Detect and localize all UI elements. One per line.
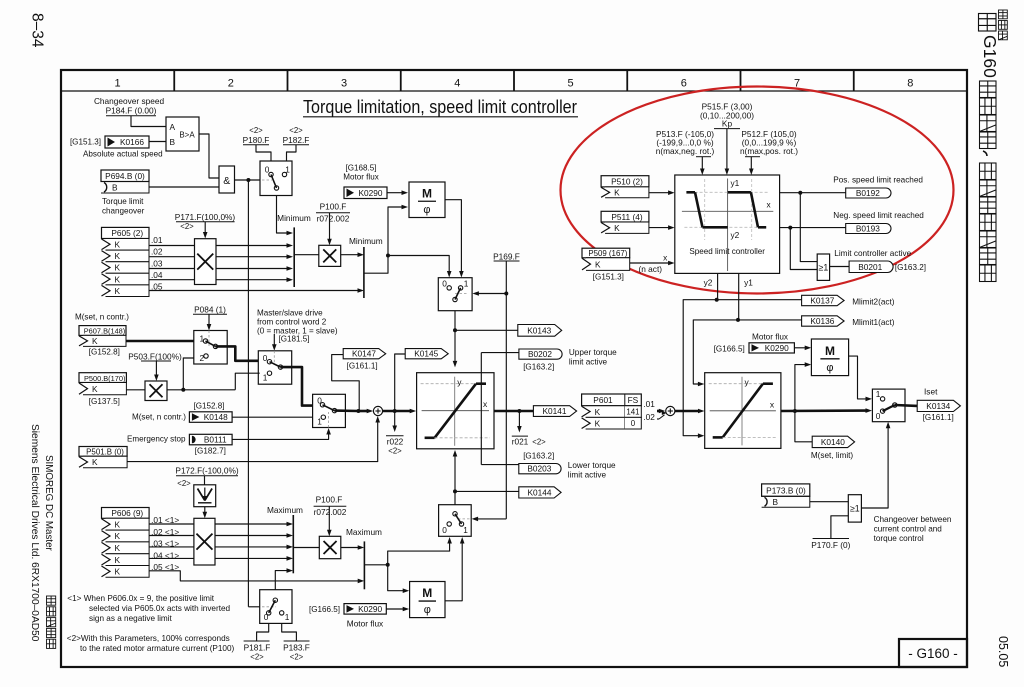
svg-text:[G161.1]: [G161.1] (347, 361, 378, 370)
multiplier P606 x P172 (194, 518, 215, 565)
svg-text:<2>: <2> (249, 126, 263, 135)
switch minimum/maximum select lower (439, 505, 472, 537)
connector K0134 Iset (917, 386, 960, 422)
svg-text:[G182.7]: [G182.7] (195, 446, 226, 455)
svg-text:K0134: K0134 (926, 401, 950, 411)
connector K0140 (811, 436, 855, 460)
wire y2 output to B0193 (780, 226, 846, 230)
svg-text:P181.F: P181.F (244, 642, 271, 652)
svg-text:[G151.3]: [G151.3] (70, 138, 101, 147)
wire multiplier to maximum rail 2 (341, 545, 364, 550)
svg-text:K0140: K0140 (821, 437, 845, 447)
wire maximum rail to multiplier (293, 547, 319, 549)
label Changeover between current and torque control (874, 515, 952, 543)
svg-text:A: A (170, 122, 176, 132)
svg-text:[G161.1]: [G161.1] (923, 413, 954, 422)
wire upper switch output down to limiter1 (453, 311, 518, 368)
switch Iset select (872, 389, 905, 422)
svg-text:M(set, n contr.): M(set, n contr.) (132, 412, 186, 421)
parameter table P605 (102, 227, 150, 238)
svg-text:Upper torque: Upper torque (569, 348, 617, 357)
svg-text:r021: r021 (512, 437, 529, 447)
wire P184 to comparator A (131, 116, 166, 127)
svg-text:P694.B (0): P694.B (0) (105, 171, 145, 181)
svg-text:K: K (92, 336, 98, 346)
parameter table P511 (601, 211, 649, 222)
label P169.F control (493, 251, 520, 261)
svg-text:[G152.8]: [G152.8] (193, 402, 224, 411)
wire adder2 to limiter2 (bold) (675, 409, 705, 414)
svg-text:(n act): (n act) (639, 264, 663, 274)
svg-text:[G163.2]: [G163.2] (895, 263, 926, 272)
svg-text:x: x (770, 399, 775, 409)
svg-text:r072.002: r072.002 (317, 214, 350, 224)
svg-text:K: K (115, 274, 121, 284)
wire inverter to multiplier P606 (203, 507, 208, 519)
svg-text:141: 141 (626, 408, 639, 417)
parameter table P607.B(148) (79, 326, 126, 336)
wire P170 to OR gate (831, 516, 848, 539)
parameter table P606 (102, 508, 150, 519)
svg-text:8: 8 (907, 78, 913, 90)
svg-text:P173.B (0): P173.B (0) (766, 486, 806, 496)
wire P180 into switch (256, 145, 271, 161)
svg-text:<2>: <2> (290, 652, 304, 661)
label P171.F multiplier gain (175, 212, 236, 231)
svg-text:B0111: B0111 (204, 435, 227, 445)
border frame (61, 70, 967, 667)
wire P511 into controller (649, 225, 675, 230)
wire P173 to OR gate (810, 501, 849, 503)
wire y1 output to B0192 (780, 191, 846, 195)
wire y1 into limiter2 top (693, 273, 801, 386)
page number 8-34 (29, 13, 46, 48)
connector K0290 bottom (344, 604, 386, 615)
wire P172 into inverter (204, 476, 206, 485)
label K0148 M(set,n contr.) (132, 402, 225, 422)
minimum rail 1 (277, 213, 311, 287)
wire M-phi bottom output to switch (445, 537, 465, 601)
connector B0201 (830, 249, 926, 273)
svg-text:K: K (115, 519, 121, 529)
svg-text:K: K (595, 418, 601, 428)
wire multiplier to minimum rail 2 (341, 252, 364, 257)
svg-text:&: & (223, 175, 230, 187)
svg-text:P184.F (0.00): P184.F (0.00) (106, 106, 157, 116)
wire maximum2 output to M-phi and switch (364, 537, 452, 593)
svg-text:Iset: Iset (924, 386, 938, 396)
multiplier P605 x P171 (195, 239, 217, 285)
minimum rail 2 (349, 236, 383, 298)
connector K0143 (518, 325, 562, 337)
svg-text:Torque limitation, speed limit: Torque limitation, speed limit controlle… (303, 96, 577, 117)
svg-text:[G163.2]: [G163.2] (523, 451, 554, 460)
svg-text:B0201: B0201 (858, 262, 882, 272)
wires speed limit flags to OR gate (790, 193, 817, 270)
connector B0111 (189, 434, 232, 445)
svg-text:y1: y1 (744, 277, 753, 287)
svg-text:limit active: limit active (568, 471, 607, 480)
label Master/slave drive note (257, 309, 338, 344)
wire B0111 control to emergency switch (232, 428, 331, 439)
G160 label box (899, 639, 967, 667)
svg-text:B: B (112, 183, 118, 193)
svg-text:torque control: torque control (874, 534, 924, 543)
wires P606 rows to multiplier and maximum rail (149, 522, 364, 584)
svg-text:<2>: <2> (250, 652, 264, 661)
svg-text:B0193: B0193 (856, 224, 880, 234)
wire P510 into controller (649, 190, 675, 195)
connector K0290 right (749, 343, 794, 353)
svg-text:K0136: K0136 (810, 316, 834, 326)
wire Iset switch output (bold) (895, 404, 917, 407)
label P515.F Kp (700, 102, 754, 129)
wire M-phi output to switch 1-input (445, 200, 464, 278)
connector K0145 tap (395, 349, 449, 411)
svg-text:K0166: K0166 (120, 137, 144, 147)
divider M/phi right (811, 339, 848, 376)
svg-text:y2: y2 (704, 277, 713, 287)
svg-text:M: M (825, 344, 835, 358)
svg-text:[G163.2]: [G163.2] (523, 362, 554, 371)
wire multiplier output to switches (167, 358, 260, 392)
svg-text:K0147: K0147 (352, 349, 376, 359)
svg-text:1: 1 (285, 612, 290, 622)
svg-text:B: B (773, 497, 779, 507)
svg-text:K: K (115, 251, 121, 261)
svg-text:changeover: changeover (102, 207, 145, 216)
connector K0166 (70, 136, 163, 159)
adder 1 (373, 406, 382, 415)
svg-text:K: K (595, 259, 601, 269)
wire M-phi right to Iset switch (849, 356, 872, 401)
connector P173.B (0) (762, 484, 810, 507)
svg-text:≥1: ≥1 (850, 504, 860, 514)
svg-text:Kp: Kp (722, 119, 733, 129)
svg-text:0: 0 (876, 411, 881, 421)
svg-text:≥1: ≥1 (819, 262, 829, 272)
svg-text:K: K (115, 543, 121, 553)
svg-text:P501.B (0): P501.B (0) (86, 448, 124, 457)
multiplier maximum x flux (319, 536, 341, 558)
wire comparator to AND gate (199, 134, 219, 178)
wire K0290 right to M-phi (794, 346, 811, 351)
svg-text:.02: .02 (151, 247, 163, 257)
svg-text:φ: φ (423, 204, 430, 216)
svg-text:Motor flux: Motor flux (752, 332, 788, 341)
svg-text:<2>: <2> (180, 222, 194, 231)
wire minimum2 output to M-phi and switch (364, 205, 452, 278)
svg-text:.02: .02 (643, 412, 655, 422)
divider M/phi bottom (410, 582, 445, 618)
wire P181/P183 switch output to maximum rail (275, 568, 293, 589)
svg-text:G160: G160 (980, 35, 1000, 78)
switch P084 master/slave (194, 331, 227, 365)
wire OR gate to Iset switch control (861, 422, 890, 508)
label P183.F source (282, 623, 310, 661)
label P180.F (243, 126, 270, 145)
maximum rail 1 (267, 505, 303, 573)
svg-text:1: 1 (463, 525, 468, 535)
svg-text:M(set, n contr.): M(set, n contr.) (75, 313, 129, 322)
connector K0290 upper (344, 187, 387, 199)
red highlight ellipse (561, 87, 954, 294)
label P100.F / r072.002 lower (314, 495, 347, 517)
wire P182 into switch (287, 145, 297, 161)
wire emergency switch output to adder (bold) (335, 409, 374, 414)
svg-text:current control and: current control and (874, 525, 943, 534)
wire P084 switch output (bold) (216, 346, 260, 360)
svg-text:selected via P605.0x acts with: selected via P605.0x acts with inverted (89, 604, 231, 613)
switch P180/P182 select (260, 161, 292, 196)
svg-text:K0290: K0290 (358, 604, 382, 614)
svg-text:P606 (9): P606 (9) (111, 508, 143, 518)
svg-text:K: K (614, 188, 620, 198)
svg-text:<2>: <2> (289, 126, 303, 135)
svg-text:M: M (422, 586, 432, 600)
limiter 2 current limit (705, 373, 781, 449)
wire P694 to AND gate (149, 186, 219, 188)
connector K0147 tap (332, 349, 386, 411)
svg-text:.01: .01 (151, 235, 163, 245)
svg-text:P503.F(100%): P503.F(100%) (128, 351, 182, 361)
svg-text:K: K (92, 384, 98, 394)
svg-text:Absolute actual speed: Absolute actual speed (83, 150, 163, 159)
svg-text:Master/slave drive: Master/slave drive (257, 309, 323, 318)
wire P501 into adder (127, 416, 380, 462)
date 05.05 (996, 636, 1010, 667)
svg-text:K0143: K0143 (527, 325, 551, 335)
display r021 (512, 411, 546, 447)
svg-text:B>A: B>A (179, 131, 195, 140)
svg-text:.04: .04 (151, 270, 163, 280)
svg-text:5: 5 (568, 78, 574, 90)
limiter 1 torque limit (417, 373, 494, 449)
wire P171 into multiplier (203, 222, 208, 239)
svg-text:1: 1 (115, 78, 121, 90)
svg-text:4: 4 (454, 78, 460, 90)
wire K0148 to emergency switch (232, 416, 313, 418)
OR gate changeover (848, 495, 861, 522)
svg-text:y: y (457, 377, 462, 387)
svg-text:0: 0 (442, 525, 447, 535)
label Torque limit changeover (102, 197, 145, 216)
svg-text:Minimum: Minimum (277, 213, 311, 223)
svg-text:1: 1 (876, 389, 881, 399)
svg-text:φ: φ (826, 362, 833, 374)
wire K0290 to M-phi bottom (386, 607, 409, 612)
svg-text:Speed limit controller: Speed limit controller (689, 247, 765, 256)
svg-text:to the rated motor armature cu: to the rated motor armature current (P10… (80, 644, 235, 653)
svg-text:P510 (2): P510 (2) (611, 177, 643, 187)
svg-text:φ: φ (424, 604, 431, 616)
parameter table P501.B (0) (79, 447, 127, 457)
svg-text:[G152.8]: [G152.8] (89, 348, 120, 357)
left margin imprint line 1 (29, 424, 40, 642)
connector K0136 (802, 316, 895, 327)
svg-text:B0202: B0202 (528, 349, 552, 359)
svg-text:[G168.5]: [G168.5] (345, 164, 376, 173)
svg-text:P607.B(148): P607.B(148) (84, 327, 126, 336)
parameter table P510 (601, 176, 649, 187)
wire minimum rail to multiplier (294, 254, 319, 256)
label P172.F(-100,0%) (175, 466, 238, 489)
svg-text:P084 (1): P084 (1) (194, 305, 226, 315)
svg-text:K0290: K0290 (359, 188, 383, 198)
wire lower switch output up to limiter1 (453, 450, 519, 505)
svg-text:Maximum: Maximum (267, 505, 303, 515)
maximum rail 2 (346, 527, 382, 589)
svg-text:SIMOREG DC Master: SIMOREG DC Master (43, 455, 54, 552)
svg-text:0: 0 (442, 279, 447, 289)
connector B0203 lower torque limit (519, 451, 616, 479)
svg-text:P100.F: P100.F (316, 495, 343, 505)
svg-text:sign as a negative limit: sign as a negative limit (89, 614, 173, 623)
multiplier minimum x flux (319, 245, 341, 266)
svg-text:Pos. speed limit reached: Pos. speed limit reached (833, 175, 923, 184)
connector B0202 upper torque limit (519, 348, 617, 371)
svg-text:P180.F: P180.F (243, 135, 270, 145)
OR gate limit controller active (817, 254, 829, 280)
label P512.F (740, 129, 798, 157)
parameter table P500.B(170) (79, 373, 126, 383)
display r022 (386, 411, 404, 456)
svg-text:K: K (115, 531, 121, 541)
svg-text:Maximum: Maximum (346, 527, 382, 537)
svg-text:P183.F: P183.F (283, 642, 310, 652)
label G168.5 Motor flux (343, 164, 379, 182)
inverter block minus one (194, 485, 216, 507)
wires parameters into controller (700, 129, 754, 175)
svg-text:[G137.5]: [G137.5] (89, 397, 120, 406)
speed limit controller block (675, 175, 780, 273)
svg-text:M(set, limit): M(set, limit) (811, 451, 854, 460)
wire y2 into limiter2 bottom (683, 273, 801, 438)
connector K0141 (533, 406, 576, 417)
svg-text:P500.B(170): P500.B(170) (84, 374, 126, 383)
svg-text:P169.F: P169.F (493, 251, 520, 261)
switch emergency stop (313, 394, 346, 427)
label P170.F (0) (811, 539, 850, 551)
svg-text:Changeover speed: Changeover speed (94, 96, 165, 106)
svg-text:r022: r022 (387, 436, 404, 446)
svg-text:K0141: K0141 (543, 406, 567, 416)
label P182.F (283, 126, 310, 145)
svg-text:P601: P601 (593, 395, 613, 405)
wire limiter1 output to K0141 (bold) (494, 409, 533, 413)
svg-text:FS: FS (628, 395, 639, 405)
svg-text:<2>: <2> (532, 438, 546, 447)
svg-text:from control word 2: from control word 2 (257, 318, 327, 327)
svg-text:Motor flux: Motor flux (343, 173, 379, 182)
left margin imprint line 2 (43, 455, 54, 552)
svg-text:<2>With this Parameters, 100%: <2>With this Parameters, 100% correspond… (67, 634, 230, 643)
svg-text:<2>: <2> (388, 447, 402, 456)
svg-text:y1: y1 (731, 178, 740, 188)
wires P605 rows to multiplier and minimum rail (149, 243, 364, 293)
svg-text:Siemens Electrical Drives Ltd.: Siemens Electrical Drives Ltd. 6RX1700–0… (29, 424, 40, 642)
switch minimum/flux select upper (438, 278, 472, 311)
wire G181.5 switch output (bold) (281, 367, 313, 406)
wire P500 to multiplier (126, 389, 145, 391)
svg-text:K: K (614, 223, 620, 233)
svg-text:K0148: K0148 (204, 412, 228, 422)
svg-text:[G166.5]: [G166.5] (309, 605, 340, 614)
label P084 (1) (193, 305, 227, 315)
wire r072 into maximum multiplier (327, 506, 332, 536)
wire limiter2 output (bold) (781, 362, 872, 442)
svg-text:Neg. speed limit reached: Neg. speed limit reached (833, 211, 924, 220)
svg-text:n(max,pos. rot.): n(max,pos. rot.) (740, 146, 798, 156)
connector K0144 (519, 487, 561, 498)
wire K0166 to comparator B (149, 141, 166, 143)
svg-text:Emergency stop: Emergency stop (127, 434, 186, 443)
connector B0193 (833, 211, 924, 234)
svg-text:P172.F(-100,0%): P172.F(-100,0%) (175, 466, 238, 476)
wire AND output to switch and down (235, 178, 261, 607)
svg-text:<1> When P606.0x = 9, the posi: <1> When P606.0x = 9, the positive limit (67, 594, 215, 603)
label P503.F(100%) (128, 351, 182, 361)
svg-text:K: K (115, 263, 121, 273)
wire B0202/B0203 tap (481, 353, 519, 465)
svg-text:P511 (4): P511 (4) (611, 212, 642, 222)
comparator B>A (166, 117, 199, 151)
svg-text:- G160 -: - G160 - (908, 646, 958, 661)
parameter table P601 FS (582, 394, 656, 429)
connector K0148 (189, 412, 232, 423)
connector B0192 (833, 175, 923, 198)
footnote 2 (67, 634, 235, 653)
svg-text:K0145: K0145 (414, 349, 438, 359)
svg-text:3: 3 (341, 78, 347, 90)
labels y2 y1 below controller (704, 277, 754, 287)
svg-text:B0192: B0192 (856, 188, 880, 198)
svg-text:Mlimit2(act): Mlimit2(act) (852, 298, 895, 307)
label P100.F / r072.002 upper (316, 202, 350, 224)
right margin chinese title (980, 81, 997, 282)
wire P509 into controller (630, 261, 675, 266)
right margin figure id 图 G160 (979, 14, 1001, 79)
svg-text:8–34: 8–34 (29, 13, 46, 48)
svg-text:K0290: K0290 (765, 343, 789, 353)
svg-text:2: 2 (228, 78, 234, 90)
svg-text:Changeover between: Changeover between (874, 515, 952, 524)
wire P169 control to both switches (472, 261, 509, 521)
switch P181/P183 select (260, 590, 292, 624)
svg-text:K: K (92, 457, 98, 467)
wire K0290 to M-phi divider (387, 190, 408, 195)
label Changeover speed / P184.F (94, 96, 165, 116)
right margin small title 功能图 (999, 10, 1008, 19)
svg-text:Limit controller active: Limit controller active (834, 249, 911, 258)
svg-text:Minimum: Minimum (349, 236, 383, 246)
svg-text:P182.F: P182.F (283, 135, 310, 145)
svg-text:K: K (115, 286, 121, 296)
footnote 1 (67, 594, 230, 623)
wire P607 to P084 switch (bold) (126, 340, 194, 343)
svg-text:K: K (115, 555, 121, 565)
svg-text:P170.F (0): P170.F (0) (811, 540, 850, 550)
svg-text:0: 0 (631, 419, 636, 428)
connector K0137 (802, 295, 895, 306)
parameter table P509 n-act (582, 248, 668, 281)
wire r072 into minimum multiplier (327, 213, 332, 246)
svg-text:[G166.5]: [G166.5] (714, 345, 745, 354)
svg-text:6: 6 (681, 78, 687, 90)
wire G181.5 into switch (272, 334, 277, 351)
svg-text:P100.F: P100.F (320, 202, 347, 212)
svg-text:n(max,neg. rot.): n(max,neg. rot.) (656, 146, 715, 156)
